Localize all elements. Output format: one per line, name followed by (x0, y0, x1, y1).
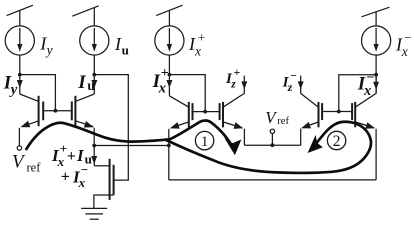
current source Ix+ (155, 26, 184, 55)
wire node C to M5 gate (94, 165, 109, 167)
svg-text:x: x (158, 81, 166, 97)
ground (81, 208, 107, 219)
Vref terminal 1 (17, 128, 21, 150)
junction dot pair3 gate (337, 110, 341, 114)
wire CS2 to node (93, 55, 95, 75)
svg-text:y: y (45, 43, 53, 58)
svg-text:z: z (287, 82, 293, 94)
label bold Iu (77, 72, 95, 93)
wire pair3 right source down (375, 129, 377, 180)
junction dot Vref2 (271, 143, 275, 147)
current arrow on node C wire (91, 156, 97, 164)
pair3 gate wire (322, 111, 352, 113)
svg-text:V: V (12, 152, 26, 173)
svg-text:+: + (198, 29, 205, 44)
junction dot at pair2 left source (167, 144, 171, 148)
svg-text:2: 2 (333, 133, 341, 150)
wire pair2 left source down to bottom rail (168, 129, 170, 180)
svg-text:ref: ref (277, 116, 289, 127)
supply rail symbol 1 (7, 5, 33, 26)
wire CS1 to node (19, 55, 21, 75)
pair1 gate wire (43, 110, 72, 112)
transistor M2 (pair1 right) (72, 94, 95, 127)
arrowhead loop 2 (308, 135, 323, 153)
label bold Iz+ (225, 67, 240, 90)
current source Ix- (362, 26, 391, 55)
label bold Ix+ (152, 66, 169, 97)
svg-text:y: y (9, 82, 18, 98)
Iz- output stub with arrow (298, 76, 304, 94)
transistor M6 (pair3 left) (301, 93, 322, 128)
wire Ix+ node to pair2 gate (169, 75, 205, 112)
wire CS3 to node (168, 55, 170, 75)
wire pair2 right source down to Vref rail (243, 129, 245, 145)
svg-text:z: z (230, 78, 236, 90)
svg-text:+: + (67, 148, 76, 165)
Vref rail (244, 144, 300, 146)
supply rail symbol 2 (72, 6, 98, 26)
supply rail symbol 3 (156, 5, 182, 26)
transistor M4 (pair2 right) (220, 93, 245, 128)
label bold Iy (3, 72, 18, 97)
wire M2 source down to node C (93, 128, 95, 166)
svg-text:−: − (290, 71, 297, 83)
Vref terminal 2 (270, 129, 274, 145)
label Iy (source) (39, 33, 52, 57)
svg-text:−: − (81, 162, 88, 177)
label Iu (source) (114, 34, 129, 58)
junction dot Iy node (18, 73, 22, 77)
transistor M3 (pair2 left) (169, 96, 192, 129)
label Vref 2 (265, 108, 289, 127)
transistor M7 (pair3 right) (352, 93, 376, 128)
svg-text:+: + (161, 66, 169, 81)
junction dot pair1 gate (54, 109, 58, 113)
junction dot pair2 gate (203, 110, 207, 114)
label Vref 1 (12, 152, 41, 175)
label bold Ix- (357, 71, 375, 100)
node E (Ix- node) current arrow (373, 75, 379, 94)
node 2 circle (327, 131, 345, 150)
wire Iy node to pair1 gate (20, 75, 56, 111)
supply rail symbol 4 (362, 7, 390, 26)
svg-text:ref: ref (27, 161, 42, 175)
svg-text:x: x (401, 44, 408, 59)
junction dot Ix+ node (168, 73, 172, 77)
transistor M1 (pair1 left) (20, 94, 43, 127)
bottom rail (169, 179, 376, 181)
wire Ix- node to pair3 gate (339, 75, 376, 112)
label sum line 2: + Ix- (61, 162, 88, 190)
svg-text:x: x (78, 175, 86, 190)
svg-text:x: x (194, 44, 201, 59)
transistor M5 (NMOS bottom) (110, 159, 114, 200)
svg-text:+: + (61, 169, 70, 186)
node 1 circle (195, 131, 213, 149)
label sum line 1: Ix+ + Iu (51, 141, 92, 169)
svg-text:−: − (367, 71, 375, 86)
wire pair3 left source to Vref rail (300, 129, 302, 146)
wire CS4 down (375, 55, 377, 93)
thick loop arrow 1 (26, 120, 232, 150)
svg-text:1: 1 (201, 134, 209, 150)
rail node C to pair2 left source (94, 145, 169, 147)
junction dot Ix- node (374, 73, 378, 77)
current source Iy (5, 26, 34, 55)
node D (Ix+ node) wire with current arrow (166, 75, 172, 96)
svg-text:u: u (122, 42, 129, 57)
svg-text:u: u (87, 78, 95, 93)
current source Iu (80, 26, 109, 55)
svg-text:−: − (404, 30, 411, 45)
svg-text:I: I (77, 72, 86, 93)
label bold Iz- (282, 71, 297, 94)
junction dot Iu node (92, 73, 96, 77)
node B (Iu node) wire with current arrow (91, 75, 97, 94)
pair2 gate wire (193, 111, 220, 113)
label Ix+ (source) (188, 29, 205, 58)
junction dot node C (92, 144, 96, 148)
Iz+ output stub with arrow (241, 76, 247, 94)
wire Iu node to M5 drain (94, 75, 128, 181)
node A (Iy node) wire with current arrow (17, 75, 23, 94)
arrowhead loop 1 (224, 138, 241, 156)
svg-text:+: + (234, 67, 241, 79)
M5 source wire (94, 195, 114, 208)
svg-text:x: x (57, 154, 65, 169)
label Ix- (source) (395, 30, 412, 59)
thick loop arrow 2 (166, 122, 371, 173)
